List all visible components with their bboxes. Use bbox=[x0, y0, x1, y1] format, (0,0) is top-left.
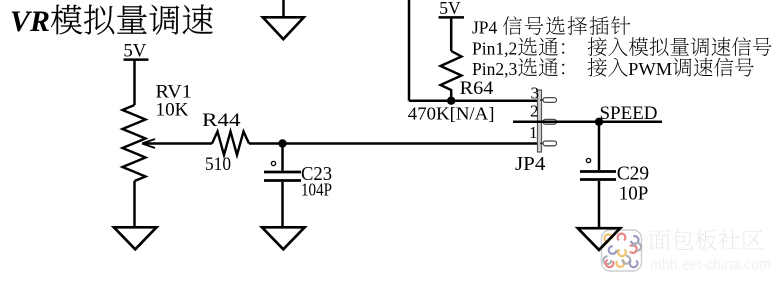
note line 1 (JP4 header select) bbox=[472, 16, 630, 37]
power 5V (R64) bbox=[439, 0, 465, 51]
svg-text:R64: R64 bbox=[460, 78, 494, 99]
watermark logo bbox=[602, 230, 642, 271]
title text VR bbox=[10, 5, 50, 38]
ground (top) bbox=[263, 0, 304, 39]
svg-text:VR: VR bbox=[10, 5, 50, 38]
ground (RV1) bbox=[114, 227, 157, 249]
net label SPEED bbox=[600, 103, 658, 124]
svg-text:104P: 104P bbox=[301, 180, 332, 200]
svg-text:1: 1 bbox=[529, 123, 538, 142]
label R44 bbox=[202, 111, 241, 131]
label 470K[N/A] bbox=[408, 104, 495, 124]
wire (SPEED) bbox=[513, 121, 662, 124]
capacitor C23 bbox=[264, 144, 301, 228]
svg-text:5V: 5V bbox=[439, 0, 461, 18]
svg-text:3: 3 bbox=[531, 84, 540, 103]
svg-text:JP4: JP4 bbox=[472, 18, 498, 38]
junction (R64/JP4 pin3) bbox=[447, 97, 455, 105]
label 10P bbox=[619, 184, 649, 205]
svg-text:RV1: RV1 bbox=[156, 83, 192, 103]
junction (SPEED/C29) bbox=[595, 118, 603, 126]
svg-text:SPEED: SPEED bbox=[600, 103, 658, 124]
svg-text:R44: R44 bbox=[202, 111, 241, 131]
watermark url bbox=[650, 257, 771, 274]
label 10K bbox=[156, 101, 190, 121]
label 510 bbox=[205, 155, 231, 175]
svg-text:10P: 10P bbox=[619, 184, 649, 205]
svg-text:470K[N/A]: 470K[N/A] bbox=[408, 104, 495, 124]
svg-text:C29: C29 bbox=[617, 164, 649, 185]
connector JP4 body bbox=[538, 90, 542, 152]
power 5V (left) bbox=[123, 41, 148, 106]
note line 2 (Pin1,2) bbox=[472, 37, 771, 58]
note line 3 (Pin2,3) bbox=[472, 58, 754, 79]
watermark text 面包板社区 bbox=[649, 229, 763, 250]
wire (RV1 bottom) bbox=[133, 181, 136, 227]
resistor R44 bbox=[212, 132, 249, 156]
connector JP4 pin1 pad bbox=[540, 141, 557, 146]
svg-text:PWM: PWM bbox=[628, 59, 672, 79]
label JP4 bbox=[515, 154, 546, 175]
label C23 bbox=[301, 164, 332, 185]
wire (wiper to R44) bbox=[144, 142, 212, 145]
svg-text:10K: 10K bbox=[156, 101, 190, 121]
title text 模拟量调速 bbox=[51, 5, 213, 35]
wire (R44 to JP4 pin1) bbox=[249, 142, 538, 145]
svg-text:Pin2,3: Pin2,3 bbox=[472, 59, 517, 79]
resistor R64 bbox=[441, 51, 462, 101]
ground (C23) bbox=[262, 227, 305, 249]
ground (C29) bbox=[578, 228, 620, 250]
pin number 2 bbox=[530, 102, 539, 121]
wire (net to top edge) bbox=[408, 0, 411, 101]
connector JP4 pin3 pad bbox=[540, 98, 557, 103]
pin number 1 bbox=[529, 123, 538, 142]
connector JP4 pin2 pad bbox=[540, 119, 557, 124]
svg-text:Pin1,2: Pin1,2 bbox=[472, 39, 517, 59]
potentiometer RV1 bbox=[123, 105, 156, 181]
wire (R64 junction to JP4 pin3) bbox=[409, 99, 538, 102]
junction (C23 tap) bbox=[278, 139, 286, 147]
capacitor C29 bbox=[580, 122, 616, 228]
svg-text:mbb.eet-china.com: mbb.eet-china.com bbox=[650, 257, 771, 274]
label RV1 bbox=[156, 83, 192, 103]
pin number 3 bbox=[531, 84, 540, 103]
label C29 bbox=[617, 164, 649, 185]
svg-text:JP4: JP4 bbox=[515, 154, 546, 175]
svg-text:510: 510 bbox=[205, 155, 231, 175]
svg-text:2: 2 bbox=[530, 102, 539, 121]
label R64 bbox=[460, 78, 494, 99]
label 104P bbox=[301, 180, 332, 200]
